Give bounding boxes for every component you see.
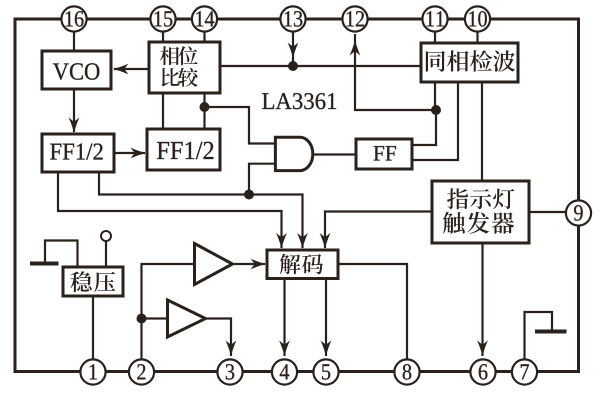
wire VCO to FF1/2 U3 [73, 89, 75, 132]
pin 6 [470, 359, 495, 384]
wire node C to pin12 [355, 34, 436, 110]
pin 2 [129, 359, 154, 384]
junction node E [137, 314, 147, 324]
label LA3361 [262, 93, 274, 109]
wire pin16 to VCO [73, 32, 75, 51]
wire node A to AND gate upper input [205, 107, 277, 144]
wire pin13 to node D [292, 32, 294, 64]
pin 7 [512, 359, 537, 384]
wire pin10 to quad-detector [476, 32, 478, 43]
wire decoder to pin4 [283, 278, 285, 356]
block U2 phase comparator 相位比较 [149, 42, 220, 93]
pin 5 [313, 359, 338, 384]
arrowhead into pin5 [321, 341, 332, 357]
wire decoder to pin5 [325, 278, 327, 356]
wire FF1/2 U3 out2 to decoder [99, 172, 303, 248]
arrowhead into FF1/2 U3 [69, 118, 80, 134]
wire phase-comp to FF1/2 U4 right [203, 93, 205, 129]
junction node C [431, 105, 441, 115]
block U9 regulator 稳压 [63, 267, 123, 296]
wire AND gate output to FF [313, 153, 356, 155]
pin 10 [465, 6, 490, 31]
arrowhead into decoder in3 [320, 233, 331, 249]
junction node B [244, 190, 254, 200]
wire FF1/2 U3 out1 to decoder [58, 172, 282, 248]
wire quad-detector to node C [434, 82, 436, 110]
pin 13 [280, 6, 305, 31]
block U7 FF flip-flop [356, 139, 412, 169]
terminal circle above regulator [101, 231, 111, 241]
arrowhead into pin6 [477, 341, 488, 357]
block U1 VCO [42, 51, 111, 89]
arrowhead into pin12 [350, 40, 361, 56]
wire AND gate lower input from node B [249, 164, 276, 195]
op-amp A2 [168, 300, 206, 337]
ground bar left [30, 262, 59, 266]
block U4 FF1/2 divider [147, 129, 220, 170]
pin 9 [566, 200, 591, 225]
wire FF to quad-detector [412, 82, 458, 160]
wire phase-comp to quad-detector [220, 65, 421, 67]
block U5 quadrature detector 同相检波 [421, 43, 518, 82]
wire amp A1 to decoder [234, 263, 265, 265]
pin 3 [217, 359, 242, 384]
wire pin15 to phase-comp [162, 32, 164, 42]
wire lamp-trigger to decoder [325, 212, 432, 249]
wire decoder to pin8 [338, 264, 407, 359]
wire lamp-trigger to pin6 [481, 243, 483, 356]
wire U2 phase-comp to VCO [114, 68, 149, 70]
pin 15 [150, 6, 175, 31]
AND gate U6 [275, 137, 312, 170]
arrowhead into decoder in1 [276, 233, 287, 249]
wire regulator to ground [45, 241, 78, 268]
pin 11 [422, 6, 447, 31]
arrowhead into pin3 [226, 341, 237, 357]
arrowhead into FF1/2 U4 [131, 148, 147, 159]
block U8 lamp trigger 指示灯触发器 [432, 181, 529, 243]
block U10 decoder 解码 [267, 250, 338, 279]
arrowhead into decoder left [251, 259, 267, 270]
wire pin7 to ground [525, 312, 553, 359]
wire amp A2 to pin3 [207, 319, 231, 357]
wire pin14 to phase-comp [203, 32, 205, 42]
pin 14 [192, 6, 217, 31]
wire regulator to pin1 [92, 296, 94, 359]
pin 1 [80, 359, 105, 384]
wire quad-detector to lamp-trigger [481, 82, 483, 181]
wire pin11 to quad-detector [434, 32, 436, 43]
block U3 FF1/2 divider [42, 134, 114, 172]
ground bar right [535, 330, 567, 334]
junction node A [200, 102, 210, 112]
wire node E to amp A2 [142, 317, 167, 319]
arrowhead pin13 onto node D [288, 43, 299, 59]
pin 8 [394, 359, 419, 384]
pin 16 [61, 6, 86, 31]
wire lamp-trigger to pin9 [529, 211, 566, 213]
wire pin2 to amp A1 [142, 264, 194, 359]
wire phase-comp to FF1/2 U4 left [162, 93, 164, 129]
pin 12 [342, 6, 367, 31]
wire FF1/2 U3 to FF1/2 U4 [114, 152, 145, 154]
arrowhead into decoder in2 [297, 233, 308, 249]
wire FF to node C [412, 110, 436, 145]
arrowhead into VCO [113, 64, 129, 75]
wire terminal to regulator [105, 241, 107, 267]
op-amp A1 [195, 244, 233, 285]
pin 4 [272, 359, 297, 384]
arrowhead into pin4 [279, 341, 290, 357]
junction node D [288, 61, 298, 71]
